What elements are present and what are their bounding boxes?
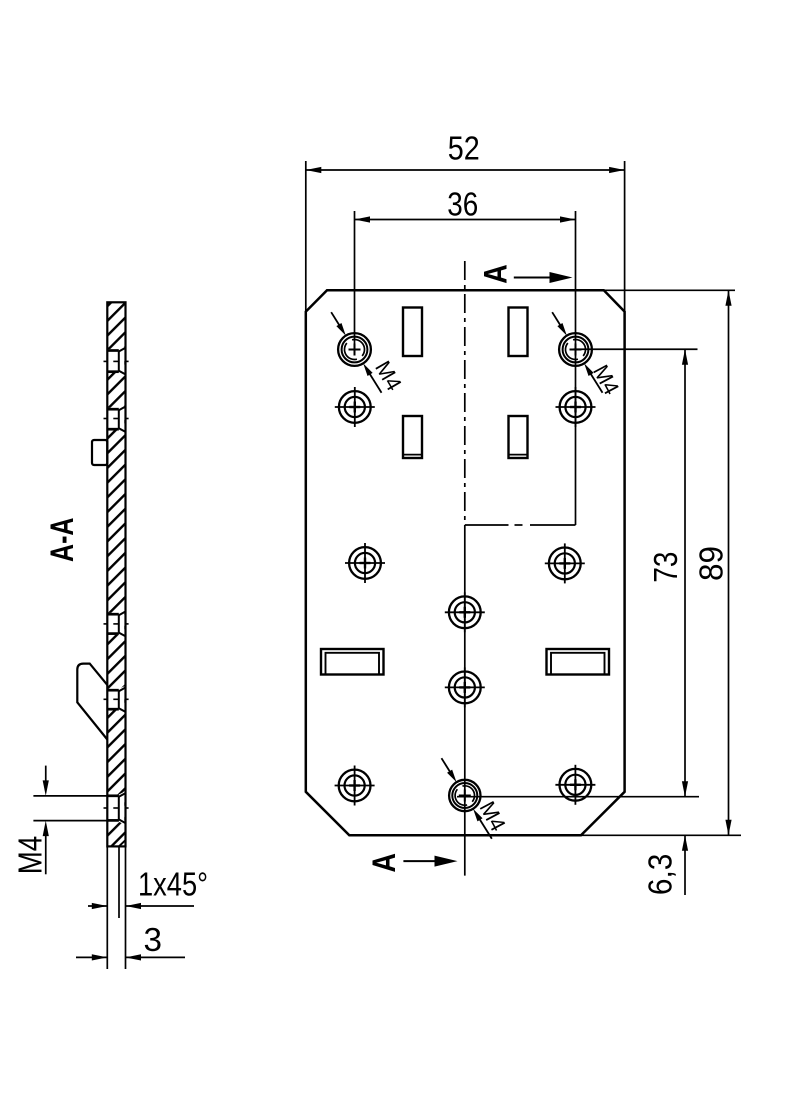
svg-text:M4: M4	[12, 836, 49, 875]
svg-text:A: A	[477, 264, 513, 284]
svg-text:3: 3	[144, 921, 163, 958]
svg-text:A-A: A-A	[44, 518, 80, 563]
svg-text:6,3: 6,3	[642, 854, 679, 896]
svg-text:89: 89	[693, 546, 730, 581]
svg-text:A: A	[366, 853, 402, 873]
svg-text:52: 52	[448, 130, 480, 167]
svg-text:73: 73	[647, 552, 684, 583]
svg-text:1x45°: 1x45°	[138, 866, 208, 903]
svg-text:36: 36	[447, 186, 478, 223]
